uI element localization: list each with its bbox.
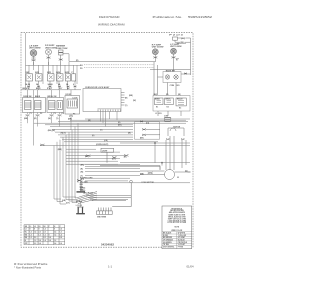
svg-text:1-3: 1-3 — [30, 234, 32, 236]
svg-text:N: N — [176, 60, 178, 62]
svg-text:OVEN DOOR LOCK ASSY: OVEN DOOR LOCK ASSY — [85, 86, 110, 89]
svg-text:(BK): (BK) — [129, 95, 133, 97]
svg-text:L1 N L2: L1 N L2 — [76, 205, 82, 207]
svg-text:1-2: 1-2 — [54, 240, 56, 242]
svg-text:(W): (W) — [48, 118, 51, 120]
svg-text:L2: L2 — [34, 226, 36, 228]
svg-text:X: X — [34, 229, 35, 231]
svg-text:RELAY: RELAY — [177, 98, 183, 101]
svg-text:P 2 of 3: P 2 of 3 — [169, 35, 184, 37]
svg-text:(W): (W) — [124, 157, 127, 159]
svg-text:2-3: 2-3 — [34, 237, 36, 239]
svg-text:(R): (R) — [76, 60, 79, 62]
svg-text:P3: P3 — [54, 113, 56, 115]
svg-text:(BK): (BK) — [24, 118, 28, 120]
svg-text:2-4: 2-4 — [60, 242, 62, 245]
svg-text:1-4: 1-4 — [60, 233, 62, 236]
svg-text:BL BLUE: BL BLUE — [178, 240, 185, 242]
svg-text:(R): (R) — [81, 169, 84, 171]
svg-text:6: 6 — [73, 84, 74, 86]
svg-text:3-4: 3-4 — [49, 236, 51, 239]
svg-text:COM: COM — [170, 85, 175, 87]
svg-text:1-3: 1-3 — [60, 232, 62, 234]
svg-text:2-3: 2-3 — [34, 243, 36, 245]
svg-text:(W): (W) — [180, 42, 184, 44]
svg-text:OFF: OFF — [25, 243, 28, 245]
svg-text:P: P — [49, 226, 50, 228]
svg-text:SW3: SW3 — [47, 72, 51, 74]
svg-text:Publication No.: Publication No. — [153, 15, 183, 19]
svg-text:N: N — [54, 226, 55, 228]
svg-text:X: X — [49, 234, 50, 236]
svg-text:P4: P4 — [80, 64, 83, 67]
svg-text:SW5: SW5 — [65, 72, 69, 74]
svg-text:(W): (W) — [88, 120, 91, 122]
svg-text:UNIT 2400W: UNIT 2400W — [29, 47, 41, 50]
svg-text:R RED: R RED — [163, 235, 169, 237]
svg-text:1-3: 1-3 — [44, 234, 46, 236]
svg-text:BK W R: BK W R — [23, 88, 30, 90]
svg-text:3-4: 3-4 — [39, 242, 41, 245]
svg-text:(BK): (BK) — [140, 137, 144, 139]
svg-text:BROIL SW: BROIL SW — [48, 96, 57, 98]
svg-text:GN GREEN: GN GREEN — [163, 242, 172, 244]
svg-text:P5: P5 — [73, 114, 75, 116]
svg-text:SW2: SW2 — [35, 72, 39, 74]
svg-text:L1 L2 N: L1 L2 N — [155, 113, 162, 115]
svg-text:BK R: BK R — [36, 88, 41, 90]
svg-text:(R): (R) — [125, 97, 128, 99]
svg-text:3-4: 3-4 — [49, 239, 51, 242]
svg-text:5A: 5A — [66, 83, 69, 86]
svg-text:BK R W: BK R W — [76, 201, 83, 203]
svg-text:(GN): (GN) — [84, 181, 88, 183]
svg-text:(R): (R) — [118, 122, 121, 124]
svg-text:2-4: 2-4 — [60, 228, 62, 231]
svg-text:2-3: 2-3 — [44, 237, 46, 239]
svg-text:OVEN SW: OVEN SW — [23, 96, 32, 98]
svg-text:MOTOR: MOTOR — [173, 126, 180, 128]
svg-text:BAKE: BAKE — [35, 95, 41, 98]
svg-text:(Y): (Y) — [125, 105, 128, 107]
svg-text:SW4: SW4 — [56, 71, 60, 74]
svg-text:P2: P2 — [40, 113, 42, 115]
svg-text:K2: K2 — [167, 107, 169, 109]
svg-text:BROIL: BROIL — [166, 99, 171, 101]
svg-text:X: X — [39, 229, 40, 231]
svg-text:1A 2B: 1A 2B — [25, 83, 31, 86]
svg-text:BR BROWN: BR BROWN — [163, 237, 173, 239]
svg-text:(R) (Y): (R) (Y) — [61, 133, 67, 135]
svg-text:R W Y: R W Y — [47, 88, 53, 90]
svg-text:3A 4B: 3A 4B — [48, 83, 54, 86]
svg-text:(BK): (BK) — [118, 125, 122, 127]
svg-text:5995419582: 5995419582 — [188, 15, 213, 19]
svg-text:NO: NO — [177, 85, 180, 87]
svg-text:P1: P1 — [30, 113, 32, 115]
svg-text:H1: H1 — [39, 226, 41, 228]
svg-text:1-4: 1-4 — [44, 239, 46, 242]
svg-text:MH: MH — [25, 237, 27, 239]
svg-text:L1: L1 — [30, 226, 32, 228]
svg-text:ML: ML — [25, 232, 27, 234]
svg-text:POWER CORD: POWER CORD — [80, 178, 93, 180]
svg-text:(R): (R) — [34, 118, 37, 120]
svg-text:1-2: 1-2 — [44, 229, 46, 231]
svg-text:(BK): (BK) — [140, 174, 144, 176]
svg-text:1-3: 1-3 — [34, 240, 36, 242]
svg-text:X: X — [54, 229, 55, 231]
svg-text:(BK) (R) (W): (BK) (R) (W) — [83, 192, 93, 194]
svg-text:LIGHT: LIGHT — [102, 151, 108, 153]
svg-text:UNIT 1500W: UNIT 1500W — [45, 47, 57, 49]
svg-text:* Non-Illustrated Parts: * Non-Illustrated Parts — [14, 266, 42, 270]
svg-text:(GY): (GY) — [112, 159, 116, 161]
svg-text:2-4: 2-4 — [54, 242, 56, 245]
svg-text:(W): (W) — [81, 171, 84, 173]
svg-text:(BK): (BK) — [81, 165, 85, 167]
svg-text:3-4: 3-4 — [39, 239, 41, 242]
svg-text:(W): (W) — [128, 132, 131, 134]
svg-text:2-3: 2-3 — [44, 232, 46, 234]
svg-text:2-4: 2-4 — [54, 231, 56, 234]
svg-text:K1: K1 — [156, 107, 158, 109]
svg-text:UNIT 1200W: UNIT 1200W — [170, 46, 182, 48]
svg-text:H2: H2 — [44, 226, 46, 228]
svg-text:LOCK: LOCK — [73, 97, 79, 99]
svg-text:(OR): (OR) — [104, 140, 108, 142]
svg-text:(BK): (BK) — [85, 156, 89, 158]
svg-text:1-3: 1-3 — [30, 232, 32, 234]
svg-text:1-4: 1-4 — [34, 231, 36, 234]
svg-text:W WHITE: W WHITE — [178, 233, 185, 235]
svg-text:SW1: SW1 — [26, 72, 30, 74]
svg-text:4A: 4A — [58, 83, 61, 86]
svg-text:DOOR: DOOR — [66, 94, 72, 96]
svg-text:1-1: 1-1 — [108, 265, 112, 269]
svg-text:P6: P6 — [80, 68, 83, 70]
svg-text:2-4: 2-4 — [60, 236, 62, 239]
svg-text:ZONE 750W: ZONE 750W — [56, 48, 67, 50]
svg-text:P PINK: P PINK — [178, 246, 184, 248]
svg-text:V VIOLET: V VIOLET — [178, 244, 185, 246]
svg-text:(W): (W) — [133, 100, 136, 102]
svg-text:(BK) (W): (BK) (W) — [48, 130, 56, 132]
svg-text:WIRING DIAGRAM: WIRING DIAGRAM — [98, 23, 125, 27]
svg-text:UNIT 3000W: UNIT 3000W — [152, 47, 164, 49]
svg-text:M: M — [177, 177, 179, 179]
svg-text:GN/Y GRN/YEL: GN/Y GRN/YEL — [163, 246, 174, 248]
svg-text:LOCK MOTOR 1K OHM: LOCK MOTOR 1K OHM — [168, 222, 187, 224]
svg-text:1-3: 1-3 — [39, 234, 41, 236]
svg-text:(Y): (Y) — [56, 118, 59, 120]
svg-text:01/04: 01/04 — [187, 265, 194, 269]
svg-text:FEF376ASD: FEF376ASD — [99, 15, 120, 19]
svg-text:(OVEN LIGHT): (OVEN LIGHT) — [96, 144, 109, 146]
svg-text:K3: K3 — [179, 108, 181, 110]
svg-text:(GY): (GY) — [66, 203, 70, 205]
svg-text:(BK): (BK) — [181, 38, 186, 40]
svg-text:(Y): (Y) — [100, 130, 103, 132]
svg-text:COM: COM — [164, 115, 169, 117]
svg-text:Y YELLOW: Y YELLOW — [178, 235, 187, 237]
svg-text:54254062: 54254062 — [101, 243, 115, 246]
svg-text:BAKE BR: BAKE BR — [166, 69, 176, 72]
svg-text:2-3: 2-3 — [39, 232, 41, 234]
svg-text:PR PURPLE: PR PURPLE — [178, 242, 187, 244]
svg-text:# Functional Parts: # Functional Parts — [14, 262, 49, 266]
svg-text:X: X — [30, 229, 31, 231]
svg-text:P4: P4 — [62, 112, 64, 115]
svg-text:1-4: 1-4 — [54, 233, 56, 236]
svg-text:GRD TERM: GRD TERM — [97, 216, 107, 218]
svg-text:1-3: 1-3 — [30, 237, 32, 239]
svg-text:(BR): (BR) — [58, 149, 62, 151]
